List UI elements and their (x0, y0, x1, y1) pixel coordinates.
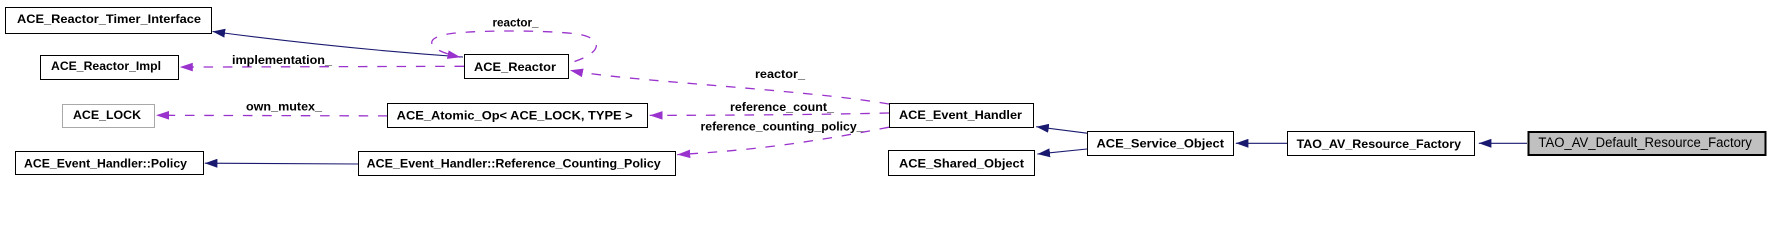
class box TAO_AV_Resource_Factory (1288, 132, 1475, 156)
svg-text:reactor_: reactor_ (755, 67, 805, 81)
svg-text:ACE_Reactor: ACE_Reactor (474, 60, 556, 74)
class box ACE_Reactor (465, 55, 569, 79)
collaboration edge reference_counting_policy_ (ACE_Event_Handler -> ACE_Event_Handler::Reference_Counting_Policy) (677, 120, 889, 155)
inheritance arrow ACE_Service_Object -> ACE_Shared_Object (1037, 149, 1087, 154)
collaboration edge reference_count_ (ACE_Event_Handler -> ACE_Atomic_Op) (650, 100, 889, 115)
svg-text:ACE_Event_Handler: ACE_Event_Handler (899, 108, 1022, 122)
class box ACE_Reactor_Timer_Interface (6, 8, 212, 34)
class box ACE_Shared_Object (889, 151, 1035, 176)
svg-text:ACE_Event_Handler::Reference_C: ACE_Event_Handler::Reference_Counting_Po… (367, 157, 661, 171)
inheritance arrow ACE_Reactor -> ACE_Reactor_Timer_Interface (213, 32, 464, 58)
inheritance arrow TAO_AV_Resource_Factory -> ACE_Service_Object (1236, 142, 1287, 144)
class box ACE_Event_Handler::Policy (16, 152, 204, 175)
svg-text:ACE_Event_Handler::Policy: ACE_Event_Handler::Policy (24, 157, 187, 171)
class box ACE_Atomic_Op< ACE_LOCK, TYPE > (388, 104, 648, 128)
class box ACE_Reactor_Impl (41, 56, 179, 80)
svg-text:TAO_AV_Default_Resource_Factor: TAO_AV_Default_Resource_Factory (1538, 135, 1752, 150)
svg-text:implementation_: implementation_ (232, 53, 332, 67)
inheritance arrow TAO_AV_Default_Resource_Factory -> TAO_AV_Resource_Factory (1479, 142, 1527, 144)
svg-text:ACE_Atomic_Op< ACE_LOCK, TYPE: ACE_Atomic_Op< ACE_LOCK, TYPE > (397, 108, 633, 122)
svg-text:ACE_Service_Object: ACE_Service_Object (1097, 136, 1225, 150)
svg-text:ACE_LOCK: ACE_LOCK (73, 108, 141, 122)
svg-text:reference_count_: reference_count_ (730, 100, 834, 114)
collaboration edge own_mutex_ (ACE_Atomic_Op -> ACE_LOCK) (156, 100, 388, 116)
svg-text:ACE_Reactor_Timer_Interface: ACE_Reactor_Timer_Interface (17, 12, 201, 26)
class box TAO_AV_Default_Resource_Factory (current class, grey fill) (1529, 132, 1766, 155)
collaboration edge reactor_ (ACE_Event_Handler -> ACE_Reactor) (570, 67, 889, 104)
class box ACE_Service_Object (1088, 132, 1234, 156)
svg-text:own_mutex_: own_mutex_ (246, 100, 322, 114)
collaboration edge implementation_ (ACE_Reactor -> ACE_Reactor_Impl) (180, 53, 464, 67)
svg-text:TAO_AV_Resource_Factory: TAO_AV_Resource_Factory (1297, 137, 1462, 151)
svg-text:reference_counting_policy_: reference_counting_policy_ (701, 120, 864, 134)
inheritance arrow ACE_Event_Handler::Reference_Counting_Policy -> ACE_Event_Handler::Policy (205, 162, 358, 165)
inheritance arrow ACE_Service_Object -> ACE_Event_Handler (1036, 127, 1087, 134)
svg-text:reactor_: reactor_ (493, 16, 539, 30)
class box ACE_Event_Handler (890, 104, 1034, 128)
svg-text:ACE_Shared_Object: ACE_Shared_Object (899, 157, 1024, 171)
svg-text:ACE_Reactor_Impl: ACE_Reactor_Impl (51, 59, 161, 73)
class box ACE_Event_Handler::Reference_Counting_Policy (359, 152, 676, 176)
collaboration self-loop reactor_ on ACE_Reactor (432, 16, 597, 62)
class box ACE_LOCK (grey border) (63, 105, 155, 128)
